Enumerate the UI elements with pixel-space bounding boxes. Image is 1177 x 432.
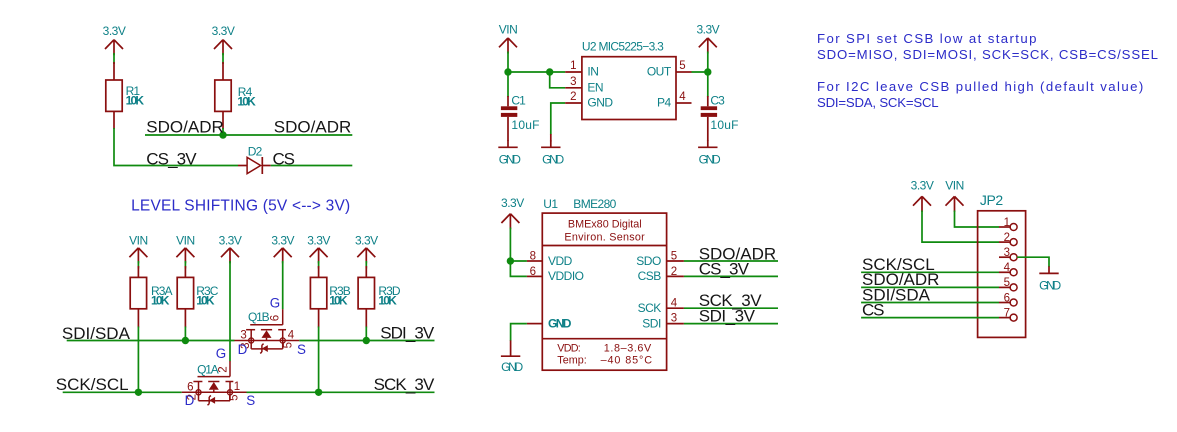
text Temp: -40 85C bbox=[557, 355, 653, 367]
svg-text:4: 4 bbox=[679, 91, 686, 103]
note I2C text bbox=[817, 79, 1145, 110]
wire SCK/SCL to pin4 bbox=[861, 271, 999, 273]
wire SCK_3V bbox=[247, 391, 435, 393]
svg-text:4: 4 bbox=[288, 329, 295, 341]
svg-text:2: 2 bbox=[218, 366, 230, 372]
pin 5 OUT bbox=[647, 60, 692, 79]
text VDD: 1.8-3.6V bbox=[557, 343, 652, 355]
wire SDI/SDA to pin6 bbox=[861, 302, 999, 304]
wire R3D to SDI_3V bbox=[365, 327, 367, 341]
wire SDO/ADR bbox=[145, 134, 352, 136]
svg-text:GND: GND bbox=[699, 152, 721, 166]
wire R3B to SCK_3V bbox=[318, 327, 320, 393]
svg-text:3: 3 bbox=[1004, 247, 1010, 259]
wire pin3 to GND bbox=[1017, 257, 1049, 267]
junction VDD bbox=[507, 257, 514, 264]
svg-text:VDD: VDD bbox=[548, 254, 573, 268]
pin 8 VDD bbox=[527, 251, 573, 268]
power 3.3V (above R3D) bbox=[355, 234, 378, 264]
svg-text:BME280: BME280 bbox=[573, 197, 616, 211]
svg-text:3: 3 bbox=[240, 329, 246, 341]
pin 1 bbox=[999, 217, 1017, 231]
power 3.3V (U1) bbox=[501, 196, 524, 229]
svg-text:U1: U1 bbox=[543, 197, 558, 211]
svg-text:1.8–3.6V: 1.8–3.6V bbox=[604, 343, 652, 355]
svg-text:Environ. Sensor: Environ. Sensor bbox=[564, 232, 645, 244]
ground (JP2) bbox=[1039, 266, 1061, 292]
pin 4 SCK bbox=[638, 297, 684, 315]
ground (C3) bbox=[698, 140, 721, 166]
svg-text:5: 5 bbox=[671, 251, 677, 263]
power 3.3V (JP2) bbox=[911, 179, 934, 212]
wire R3A to SCK/SCL bbox=[137, 327, 139, 393]
svg-text:VIN: VIN bbox=[499, 23, 518, 37]
U1 BME280 box bbox=[542, 197, 666, 370]
svg-text:3.3V: 3.3V bbox=[219, 234, 242, 248]
wire GND pin bbox=[511, 324, 527, 341]
svg-text:C3: C3 bbox=[710, 93, 725, 107]
svg-text:SCK: SCK bbox=[638, 301, 662, 315]
resistor R3C 10K bbox=[177, 266, 219, 328]
svg-text:6: 6 bbox=[1004, 292, 1010, 304]
svg-text:SDO: SDO bbox=[636, 254, 661, 268]
wire 3.3V to R3B bbox=[318, 261, 320, 269]
wire 3.3V to R3D bbox=[365, 261, 367, 269]
svg-text:10K: 10K bbox=[378, 293, 397, 307]
pin 4 P4 bbox=[657, 91, 691, 110]
junction EN branch bbox=[546, 68, 553, 75]
wire to VDD pin bbox=[510, 260, 527, 262]
ground (C1) bbox=[498, 140, 521, 166]
resistor R4 10K bbox=[215, 62, 256, 129]
svg-text:10uF: 10uF bbox=[511, 118, 539, 132]
svg-text:7: 7 bbox=[1004, 307, 1010, 319]
junction VIN/C1 bbox=[504, 68, 511, 75]
svg-text:6: 6 bbox=[187, 381, 193, 393]
svg-text:SDI_3V: SDI_3V bbox=[380, 323, 435, 342]
wire EN branch bbox=[550, 72, 566, 88]
svg-text:SDO=MISO, SDI=MOSI, SCK=SCK, C: SDO=MISO, SDI=MOSI, SCK=SCK, CSB=CS/SSEL bbox=[817, 47, 1159, 62]
svg-text:3.3V: 3.3V bbox=[696, 23, 719, 37]
svg-text:BMEx80 Digital: BMEx80 Digital bbox=[568, 218, 642, 230]
svg-text:4: 4 bbox=[671, 297, 678, 309]
pin 6 VDDIO bbox=[527, 266, 584, 283]
svg-text:5: 5 bbox=[1004, 277, 1010, 289]
wire SCK/SCL bbox=[63, 391, 182, 393]
svg-text:CS: CS bbox=[273, 149, 295, 168]
svg-text:SDI_3V: SDI_3V bbox=[699, 306, 756, 325]
svg-text:10K: 10K bbox=[151, 293, 170, 307]
svg-text:Temp:: Temp: bbox=[557, 355, 586, 367]
resistor R3B 10K bbox=[310, 266, 350, 328]
wire CS to pin7 bbox=[861, 317, 999, 319]
svg-text:10K: 10K bbox=[196, 293, 215, 307]
svg-text:SDI: SDI bbox=[642, 316, 661, 330]
svg-text:5: 5 bbox=[283, 342, 295, 348]
svg-text:6: 6 bbox=[530, 266, 536, 278]
pin 5 SDO bbox=[636, 251, 684, 268]
power 3.3V (U2 output) bbox=[696, 23, 719, 54]
svg-text:VIN: VIN bbox=[945, 179, 964, 193]
svg-text:3.3V: 3.3V bbox=[212, 24, 235, 38]
svg-text:VDDIO: VDDIO bbox=[548, 269, 584, 283]
svg-text:G: G bbox=[270, 295, 280, 310]
junction R3C/SDI bbox=[182, 337, 189, 344]
transistor Q1B bbox=[234, 295, 306, 357]
svg-text:SDO/ADR: SDO/ADR bbox=[146, 118, 223, 137]
svg-text:4: 4 bbox=[1004, 262, 1011, 274]
svg-text:1: 1 bbox=[234, 381, 240, 393]
power 3.3V (above R4) bbox=[212, 24, 235, 55]
svg-text:6: 6 bbox=[269, 315, 281, 321]
svg-text:VDD:: VDD: bbox=[557, 343, 580, 355]
svg-text:GND: GND bbox=[542, 152, 564, 166]
svg-text:CS_3V: CS_3V bbox=[699, 260, 750, 279]
pin 1 IN bbox=[565, 60, 598, 79]
capacitor C1 10uF bbox=[501, 93, 540, 141]
pin 3 EN bbox=[565, 76, 603, 94]
wire SCK_3V (U1) bbox=[684, 307, 778, 309]
svg-text:3.3V: 3.3V bbox=[501, 196, 524, 210]
pin 2 bbox=[999, 232, 1017, 246]
wire 3.3V to R4 bbox=[222, 53, 224, 64]
svg-text:VIN: VIN bbox=[176, 234, 195, 248]
wire SDO/ADR bbox=[684, 260, 778, 262]
wire to pin 1 bbox=[508, 71, 565, 73]
wire VIN to IN bbox=[507, 52, 509, 73]
power VIN (above R3C) bbox=[176, 234, 195, 264]
svg-text:GND: GND bbox=[1039, 278, 1061, 292]
svg-text:IN: IN bbox=[587, 65, 598, 79]
wire SDI/SDA bbox=[67, 340, 235, 342]
power VIN (U2 input) bbox=[499, 23, 518, 54]
diode D2 bbox=[238, 144, 271, 174]
pin 1 GND bbox=[527, 316, 572, 330]
svg-text:3.3V: 3.3V bbox=[355, 234, 378, 248]
wire 3.3V to VDD/VDDIO bbox=[510, 228, 527, 277]
wire CS bbox=[271, 165, 353, 167]
wire 3.3V to R1 bbox=[113, 53, 115, 64]
power 3.3V (above R3B) bbox=[307, 234, 330, 264]
junction SDO/ADR bbox=[219, 131, 226, 138]
wire VIN to pin1 bbox=[955, 211, 1000, 228]
svg-text:3: 3 bbox=[570, 76, 576, 88]
svg-text:For SPI set CSB low at startup: For SPI set CSB low at startup bbox=[817, 31, 1038, 46]
svg-text:SCK/SCL: SCK/SCL bbox=[56, 375, 129, 394]
wire R3C to SDI/SDA bbox=[184, 327, 186, 341]
junction R3A/SCK bbox=[135, 389, 142, 396]
resistor R3D 10K bbox=[358, 266, 401, 328]
svg-text:2: 2 bbox=[570, 91, 576, 103]
svg-text:EN: EN bbox=[587, 81, 603, 95]
power 3.3V (Q1B gate) bbox=[271, 234, 294, 264]
svg-text:JP2: JP2 bbox=[980, 192, 1004, 208]
svg-text:GND: GND bbox=[501, 360, 523, 374]
wire SDI_3V bbox=[299, 340, 434, 342]
svg-text:2: 2 bbox=[1004, 232, 1010, 244]
svg-text:D: D bbox=[238, 342, 248, 357]
svg-text:G: G bbox=[216, 346, 226, 361]
svg-text:5: 5 bbox=[679, 60, 685, 72]
wire R4 to SDO/ADR bbox=[222, 128, 224, 135]
note SPI text bbox=[817, 31, 1159, 62]
pin 3 bbox=[999, 247, 1017, 261]
ground (U1) bbox=[501, 340, 524, 374]
svg-text:OUT: OUT bbox=[647, 65, 672, 79]
ground (U2 pin2) bbox=[541, 140, 564, 166]
svg-text:3: 3 bbox=[671, 313, 677, 325]
wire 3.3V to Q1B gate bbox=[282, 261, 284, 309]
wire 3.3V to C3 bbox=[707, 52, 709, 98]
svg-text:GND: GND bbox=[548, 316, 572, 330]
power 3.3V (above R1) bbox=[103, 24, 126, 55]
wire CS_3V (U1) bbox=[684, 275, 778, 277]
svg-text:10K: 10K bbox=[237, 95, 256, 109]
pin 2 CSB bbox=[638, 266, 684, 283]
power VIN (JP2) bbox=[945, 179, 964, 212]
transistor Q1A bbox=[182, 346, 256, 408]
svg-text:10K: 10K bbox=[126, 94, 145, 108]
svg-text:CS: CS bbox=[862, 300, 884, 319]
svg-text:S: S bbox=[246, 393, 255, 408]
wire 3.3V to Q1A gate bbox=[229, 261, 231, 361]
svg-text:C1: C1 bbox=[511, 93, 526, 107]
junction R3B/SCK_3V bbox=[315, 389, 322, 396]
resistor R3A 10K bbox=[130, 266, 172, 328]
svg-text:GND: GND bbox=[587, 96, 613, 110]
svg-text:U2 MIC5225−3.3: U2 MIC5225−3.3 bbox=[582, 40, 664, 54]
svg-text:Q1A: Q1A bbox=[197, 362, 219, 376]
pin 2 GND bbox=[565, 91, 613, 110]
svg-text:1: 1 bbox=[570, 60, 576, 72]
pin 3 SDI bbox=[642, 313, 684, 331]
svg-text:LEVEL SHIFTING (5V <--> 3V): LEVEL SHIFTING (5V <--> 3V) bbox=[131, 198, 350, 215]
svg-text:CS_3V: CS_3V bbox=[146, 149, 197, 168]
resistor R1 10K bbox=[106, 62, 145, 129]
svg-text:Q1B: Q1B bbox=[248, 310, 270, 324]
power 3.3V (Q1A gate) bbox=[219, 234, 242, 264]
svg-text:3.3V: 3.3V bbox=[271, 234, 294, 248]
svg-text:–40 85°C: –40 85°C bbox=[601, 355, 653, 367]
wire R1 to CS_3V bbox=[114, 128, 238, 166]
pin 5 bbox=[999, 277, 1017, 291]
power VIN (above R3A) bbox=[129, 234, 148, 264]
svg-text:10K: 10K bbox=[329, 293, 348, 307]
pin 7 bbox=[999, 307, 1017, 321]
svg-text:1: 1 bbox=[1004, 217, 1010, 229]
svg-text:3.3V: 3.3V bbox=[307, 234, 330, 248]
capacitor C3 10uF bbox=[701, 93, 739, 141]
wire VIN to R3A bbox=[137, 261, 139, 269]
svg-text:P4: P4 bbox=[657, 96, 672, 110]
svg-text:3.3V: 3.3V bbox=[103, 24, 126, 38]
svg-text:For I2C leave CSB pulled high: For I2C leave CSB pulled high (default v… bbox=[817, 79, 1145, 94]
wire C1 top bbox=[507, 72, 509, 97]
svg-text:D: D bbox=[185, 393, 195, 408]
svg-text:3.3V: 3.3V bbox=[911, 179, 934, 193]
svg-text:D2: D2 bbox=[248, 144, 263, 158]
svg-text:8: 8 bbox=[530, 251, 536, 263]
wire SDI_3V (U1) bbox=[684, 323, 778, 325]
svg-text:SCK_3V: SCK_3V bbox=[374, 375, 435, 394]
pin 4 bbox=[999, 262, 1017, 276]
connector JP2 box bbox=[978, 192, 1026, 337]
svg-text:CSB: CSB bbox=[638, 269, 662, 283]
wire SDO/ADR to pin5 bbox=[861, 286, 999, 288]
wire VIN to R3C bbox=[184, 261, 186, 269]
svg-text:SDO/ADR: SDO/ADR bbox=[274, 118, 351, 137]
junction R3D/SDI_3V bbox=[363, 337, 370, 344]
svg-text:2: 2 bbox=[671, 266, 677, 278]
wire 3.3V to pin2 bbox=[922, 211, 999, 243]
wire pin 2 GND bbox=[551, 103, 565, 135]
svg-text:VIN: VIN bbox=[129, 234, 148, 248]
svg-text:5: 5 bbox=[229, 394, 241, 400]
pin 6 bbox=[999, 292, 1017, 306]
svg-text:10uF: 10uF bbox=[710, 118, 738, 132]
svg-text:GND: GND bbox=[499, 152, 521, 166]
op-amp U2 MIC5225-3.3 box bbox=[582, 40, 676, 120]
svg-text:SDI=SDA, SCK=SCL: SDI=SDA, SCK=SCL bbox=[817, 95, 938, 110]
junction OUT/C3 bbox=[704, 68, 711, 75]
svg-text:S: S bbox=[297, 342, 306, 357]
wire OUT to 3.3V bbox=[692, 71, 708, 73]
